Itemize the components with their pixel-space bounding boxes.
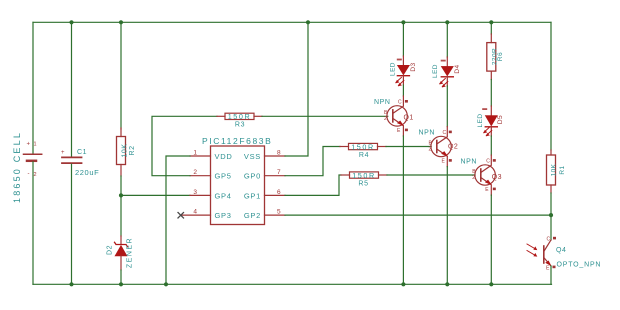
wire GP5 net: pin2 left, up, right to R3 <box>152 116 217 175</box>
svg-text:GP1: GP1 <box>244 191 261 200</box>
wire battery bottom <box>32 162 34 284</box>
node: top rail / D3 junction <box>401 20 405 24</box>
pin 4 stub <box>181 214 211 216</box>
svg-text:3: 3 <box>193 189 197 196</box>
svg-text:Q3: Q3 <box>492 174 502 181</box>
resistor R5 150R <box>341 171 387 187</box>
svg-text:C1: C1 <box>77 149 87 156</box>
D2 zener bar <box>115 242 128 246</box>
wire Q2 emitter to bottom rail <box>446 167 448 285</box>
svg-text:PIC112F683B: PIC112F683B <box>202 136 272 146</box>
node: top rail / D4 junction <box>445 20 449 24</box>
svg-text:LED: LED <box>432 64 439 78</box>
svg-text:R4: R4 <box>359 152 369 159</box>
battery BAT1 18650 CELL <box>12 22 42 284</box>
svg-text:10K: 10K <box>551 163 558 176</box>
node: top rail / R2 junction <box>119 20 123 24</box>
node: top rail / R6 junction <box>489 20 493 24</box>
R2 bottom stub <box>120 165 122 177</box>
wire Q4 emitter to bottom rail <box>550 266 552 284</box>
Q4 emitter <box>544 258 551 267</box>
transistor Q2 NPN <box>419 127 459 167</box>
wire top rail <box>33 21 551 23</box>
node: bottom rail / Q1 emitter <box>401 282 405 286</box>
Q4 base bar <box>543 246 545 263</box>
resistor R6 220R vertical <box>487 22 504 79</box>
svg-text:18650 CELL: 18650 CELL <box>12 131 22 203</box>
svg-text:-: - <box>28 171 30 177</box>
svg-text:2: 2 <box>193 169 197 176</box>
svg-text:220uF: 220uF <box>75 168 99 177</box>
wire GP1 net: pin6 right, up, to R5 <box>285 175 341 195</box>
node: GP2 / R1 / Q4 junction <box>549 213 553 217</box>
svg-text:Q2: Q2 <box>448 144 458 151</box>
svg-text:150R: 150R <box>351 142 375 151</box>
wire R2 to node <box>120 176 122 195</box>
svg-text:1: 1 <box>193 150 197 157</box>
svg-text:D3: D3 <box>410 62 417 71</box>
node: top rail / C1 junction <box>69 20 73 24</box>
svg-text:D5: D5 <box>497 115 504 124</box>
LED D3 <box>389 22 417 86</box>
node: bottom rail / D2 junction <box>119 282 123 286</box>
node: bottom rail / Q2 emitter <box>445 282 449 286</box>
svg-text:+: + <box>61 150 65 156</box>
svg-text:6: 6 <box>277 189 281 196</box>
battery plate long <box>24 153 42 155</box>
resistor R1 10K vertical <box>547 150 566 193</box>
svg-text:GP5: GP5 <box>215 172 232 181</box>
node: R2 / GP4 / D2 junction <box>119 193 123 197</box>
svg-text:R2: R2 <box>129 146 136 156</box>
svg-text:LED: LED <box>477 114 484 128</box>
svg-text:NPN: NPN <box>461 159 478 166</box>
node: top rail / VSS junction <box>306 20 310 24</box>
wire GP0 net: pin7 right, up, to R4 <box>285 147 340 176</box>
emitter <box>393 118 404 136</box>
D5 emission arrows <box>483 127 492 136</box>
pin 6 stub <box>265 194 286 196</box>
svg-text:ZENER: ZENER <box>127 237 134 268</box>
svg-text:R5: R5 <box>358 180 368 187</box>
pin 5 stub <box>265 214 286 216</box>
svg-text:2: 2 <box>472 175 475 181</box>
svg-text:VDD: VDD <box>215 152 233 161</box>
svg-text:2: 2 <box>429 147 432 153</box>
transistor Q3 NPN <box>461 155 502 195</box>
Q4 collector <box>544 240 551 252</box>
svg-text:GP2: GP2 <box>244 211 261 220</box>
svg-text:GP3: GP3 <box>215 211 232 220</box>
wire right column from top rail to R1 <box>550 22 552 150</box>
wire Q3 emitter to bottom rail <box>490 195 492 284</box>
svg-text:GP4: GP4 <box>215 191 232 200</box>
wire bottom rail <box>33 283 552 285</box>
svg-text:7: 7 <box>277 169 281 176</box>
svg-text:D4: D4 <box>454 64 461 73</box>
svg-text:NPN: NPN <box>419 130 436 137</box>
collector <box>393 96 404 113</box>
svg-text:8: 8 <box>277 150 281 157</box>
opto transistor Q4 OPTO_NPN <box>527 237 601 272</box>
transistor Q1 NPN <box>374 96 414 136</box>
svg-text:OPTO_NPN: OPTO_NPN <box>557 262 602 269</box>
op IC U1 PIC112F683B <box>181 136 285 225</box>
svg-text:VSS: VSS <box>244 152 261 161</box>
C1 plate bottom <box>62 162 82 164</box>
resistor R3 150R <box>217 112 262 128</box>
D3 emission arrows <box>395 77 404 86</box>
svg-text:C: C <box>547 237 551 243</box>
resistor R4 150R <box>340 142 386 158</box>
wire GP2 node down to Q4 collector <box>550 215 552 240</box>
svg-text:4: 4 <box>193 209 197 216</box>
wire D2 to bottom rail <box>120 270 122 284</box>
wire R4 to Q2 base <box>386 146 431 148</box>
pin 7 stub <box>265 175 286 177</box>
wire VSS net: pin8 right then up to top rail <box>285 22 308 156</box>
svg-text:C: C <box>398 100 402 106</box>
LED D5 <box>477 106 504 136</box>
D2 anode stub <box>120 256 122 270</box>
pin 8 stub <box>265 155 286 157</box>
svg-text:C: C <box>443 130 447 136</box>
wire R2 top <box>120 22 122 129</box>
svg-text:Q1: Q1 <box>404 115 414 122</box>
node: bottom rail / VDD junction <box>164 282 168 286</box>
svg-text:R3: R3 <box>235 122 245 129</box>
pin 3 stub <box>190 194 211 196</box>
svg-text:D2: D2 <box>107 245 114 255</box>
wire GP2 net: pin5 right to R1 column <box>285 214 551 216</box>
svg-text:150R: 150R <box>228 112 252 121</box>
svg-text:R6: R6 <box>497 52 504 61</box>
svg-text:NPN: NPN <box>374 99 391 106</box>
wire node to D2 <box>120 195 122 236</box>
svg-text:10K: 10K <box>122 144 129 158</box>
wire C1 bottom <box>71 164 73 284</box>
wire GP4 net: junction to pin 3 <box>121 194 190 196</box>
wire C1 top <box>71 22 73 156</box>
wire R5 to Q3 base <box>387 174 475 176</box>
wire Q1 emitter to bottom rail <box>402 136 404 284</box>
R2 top stub <box>120 128 122 137</box>
wire D4 to Q2 collector <box>446 86 448 127</box>
D4 emission arrows <box>439 79 448 88</box>
wire R1 to GP2 node <box>550 193 552 215</box>
LED D4 <box>432 22 461 87</box>
wire D3 to Q1 collector <box>402 85 404 96</box>
Q4 light arrows <box>527 244 537 257</box>
wire D5 to Q3 collector <box>490 136 492 155</box>
svg-text:R1: R1 <box>559 165 566 174</box>
node: bottom rail / C1 junction <box>69 282 73 286</box>
node: bottom rail / Q3 emitter <box>489 282 493 286</box>
wire battery top <box>32 22 34 153</box>
svg-text:C: C <box>486 159 490 165</box>
svg-text:GP0: GP0 <box>244 172 261 181</box>
capacitor C1 220uF <box>61 22 99 284</box>
D2 cathode stub <box>120 236 122 244</box>
C1 plate top <box>62 156 82 158</box>
wire R3 to Q1 base <box>262 115 388 117</box>
pin 2 stub <box>190 175 211 177</box>
base bar <box>392 110 394 122</box>
wire VDD net: pin1 left then down to bottom rail <box>166 156 190 284</box>
svg-text:+: + <box>27 142 31 148</box>
battery plate short <box>27 160 36 163</box>
svg-text:150R: 150R <box>352 171 376 180</box>
svg-text:5: 5 <box>277 209 281 216</box>
svg-text:Q4: Q4 <box>556 247 567 254</box>
svg-text:2: 2 <box>34 172 37 178</box>
zener diode D2 <box>107 195 134 284</box>
resistor R2 10K vertical <box>117 22 136 195</box>
wire R6 to D5 <box>490 80 492 107</box>
pin 1 stub <box>190 155 211 157</box>
D2 triangle <box>115 246 127 257</box>
svg-text:2: 2 <box>384 116 387 122</box>
svg-text:1: 1 <box>34 142 37 148</box>
svg-text:LED: LED <box>389 62 396 76</box>
no-connect X on pin 4 <box>178 213 184 219</box>
